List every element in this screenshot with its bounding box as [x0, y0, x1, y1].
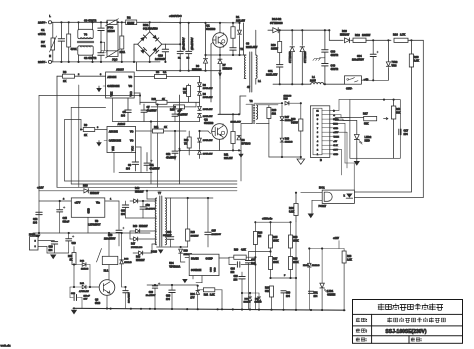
svg-text:1N4148: 1N4148 — [124, 261, 132, 264]
wire opto outputs right — [354, 191, 411, 193]
diode D27 1N4148 — [280, 117, 284, 121]
wire emitter to T1 — [218, 73, 222, 78]
svg-text:STTH6003: STTH6003 — [289, 51, 292, 63]
resistor R24 1M — [254, 222, 256, 231]
svg-text:100uF/25V: 100uF/25V — [129, 292, 131, 303]
wire T1 to Q2 collector — [240, 95, 246, 97]
ground aux symbol — [37, 233, 39, 235]
svg-text:R8: R8 — [63, 70, 67, 74]
wire opto cathode to ground — [312, 199, 322, 201]
cap C7 47uF/50V — [143, 104, 145, 110]
ground T7 DC28 — [156, 244, 158, 247]
svg-text:Q2: Q2 — [204, 118, 208, 122]
svg-text:10V/0.5W: 10V/0.5W — [203, 140, 214, 142]
wire sense bottom rail — [268, 124, 270, 157]
snubber resistor R12b 22/1.2W — [232, 114, 234, 131]
LED2 RED — [356, 121, 358, 135]
svg-text:450uF/400V: 450uF/400V — [184, 37, 186, 50]
wire T7 mid rail — [126, 217, 157, 219]
svg-text:C25: C25 — [212, 231, 217, 233]
title row name — [356, 318, 360, 322]
svg-text:17V: 17V — [190, 297, 195, 299]
svg-text:1N4148: 1N4148 — [285, 141, 293, 144]
panel sub-circuit box — [350, 100, 400, 159]
resistor R2 5/10W — [126, 20, 137, 25]
svg-text:C22: C22 — [146, 205, 151, 207]
resistor R14g — [151, 106, 174, 108]
cap C32 100uF/25V — [125, 287, 127, 290]
cap C29 10uF/50V — [154, 284, 156, 287]
snubber diode D5 — [239, 23, 241, 30]
svg-text:GREEN: GREEN — [327, 294, 336, 296]
svg-text:C30: C30 — [286, 293, 291, 295]
svg-text:HER107: HER107 — [90, 192, 100, 195]
IGBT Q1 G30N60 — [213, 33, 228, 48]
svg-text:4.7V/0.5W: 4.7V/0.5W — [79, 290, 89, 293]
title company name — [378, 304, 385, 311]
svg-text:C27: C27 — [251, 260, 256, 262]
wire +300V bus — [160, 21, 240, 24]
svg-text:FAN1: FAN1 — [29, 233, 36, 236]
wire R13 to base — [73, 265, 75, 288]
svg-text:VO: VO — [130, 140, 134, 143]
transformer T2 core dashed — [254, 105, 255, 124]
cap C24 104/400V — [207, 198, 209, 232]
svg-text:LM7815CT: LM7815CT — [88, 223, 101, 226]
svg-text:A316J: A316J — [116, 68, 124, 72]
wire DC+ to E1 — [165, 43, 180, 45]
svg-text:T1: T1 — [240, 47, 244, 51]
diode D31 1N4148 — [258, 293, 260, 296]
svg-text:C10: C10 — [158, 54, 163, 58]
svg-text:VIPER20A: VIPER20A — [169, 266, 180, 269]
resistor R10 — [140, 101, 156, 103]
cap C20 104 — [125, 201, 127, 205]
svg-text:7V00: 7V00 — [392, 61, 398, 64]
svg-text:+300vdc: +300vdc — [262, 217, 273, 221]
svg-text:47uF/50V: 47uF/50V — [178, 113, 189, 116]
relay contact arm — [97, 249, 102, 263]
inductor L1 output — [273, 83, 311, 85]
svg-text:1K: 1K — [70, 259, 73, 261]
svg-text:2.7K: 2.7K — [400, 34, 405, 37]
title block frame — [353, 300, 463, 344]
svg-text:SOURCE: SOURCE — [191, 269, 202, 272]
svg-text:22/1.2W: 22/1.2W — [224, 158, 233, 160]
svg-text:HER107: HER107 — [135, 191, 144, 193]
driver2 VCC wire — [136, 146, 141, 148]
svg-text:680uF: 680uF — [63, 221, 70, 223]
svg-text:1N4148: 1N4148 — [81, 268, 89, 271]
svg-text:R24: R24 — [258, 232, 263, 235]
choke T4 winding bottom — [78, 46, 93, 55]
wire +12V rail — [39, 190, 83, 192]
wire T2 secondary bottom — [255, 119, 257, 123]
svg-text:R12: R12 — [355, 33, 360, 37]
svg-text:STTH6003: STTH6003 — [304, 51, 307, 63]
svg-text:DC28: DC28 — [151, 252, 158, 254]
snubber R19 10/2W — [279, 30, 281, 41]
diode D61 4.7V zener — [74, 286, 82, 288]
svg-text:ZD10: ZD10 — [303, 265, 309, 267]
cap C28 104 — [171, 285, 173, 290]
transformer T7 — [155, 198, 156, 245]
svg-text:G: G — [333, 115, 335, 117]
wire Q2 emitter — [219, 139, 221, 150]
svg-text:TXEE: TXEE — [333, 137, 339, 139]
diode D18 HER107 — [139, 251, 143, 255]
svg-text:KV/G: KV/G — [333, 119, 339, 121]
wire pin G — [333, 114, 341, 116]
wire sense R26 bottom — [295, 221, 297, 310]
svg-text:47uF/50V: 47uF/50V — [166, 156, 177, 159]
svg-text:COMP: COMP — [206, 258, 214, 261]
svg-text:1K: 1K — [162, 99, 165, 101]
resistor R13b 1K — [73, 247, 75, 253]
wire T2 secondary top — [256, 104, 269, 106]
resistor R9 1K — [80, 128, 82, 130]
svg-text:VDD: VDD — [215, 267, 217, 272]
svg-text:HER107: HER107 — [139, 226, 148, 228]
Y-cap C40 472/Y2 — [322, 64, 328, 66]
svg-text:10V/0.5W: 10V/0.5W — [203, 109, 214, 111]
svg-text:R2: R2 — [127, 16, 131, 20]
ground bus symbol left — [73, 308, 75, 309]
node Q1 emitter — [219, 54, 221, 56]
svg-text:MZ06: MZ06 — [108, 29, 116, 33]
ground fan — [47, 252, 69, 254]
svg-text:VEE: VEE — [112, 146, 115, 151]
long vertical left of Q2 — [179, 95, 181, 184]
svg-text:1N4148: 1N4148 — [284, 94, 292, 97]
optocoupler ISO1 PC817 — [322, 190, 354, 203]
svg-text:MUR860: MUR860 — [192, 69, 202, 72]
transformer T1 core — [249, 52, 251, 92]
svg-text:1M: 1M — [258, 236, 261, 238]
svg-text:R20: R20 — [414, 55, 419, 59]
resistor R17 100K — [269, 257, 273, 270]
svg-text:JQC: JQC — [112, 58, 117, 62]
svg-text:R14: R14 — [170, 109, 175, 112]
svg-text:HER807: HER807 — [340, 34, 350, 37]
driver1 output network R4 — [134, 76, 154, 78]
regulator U04 VIPER20A — [189, 254, 219, 275]
transformer T1 secondary — [256, 55, 257, 78]
terminal N 220V bottom — [48, 60, 51, 63]
svg-text:2.1K: 2.1K — [414, 60, 419, 63]
svg-text:R21: R21 — [204, 295, 209, 297]
wire Q1 emitter to snubber — [206, 54, 247, 56]
svg-text:4.3K: 4.3K — [241, 249, 246, 252]
svg-text:C26: C26 — [234, 276, 239, 278]
capacitor C10 1uF/630V — [164, 44, 166, 49]
svg-text:104/400V: 104/400V — [212, 233, 222, 236]
cap C27 1nF — [249, 251, 271, 253]
svg-text:VO: VO — [130, 131, 134, 134]
control module B1 SIP — [310, 106, 329, 158]
cap C19 100uF — [68, 233, 70, 238]
svg-text:ANODE: ANODE — [109, 131, 118, 134]
svg-text:D28: D28 — [285, 139, 290, 141]
cap C22 47uF/50V — [142, 201, 144, 207]
svg-text:D12: D12 — [135, 187, 140, 190]
svg-text:D20: D20 — [342, 29, 347, 33]
svg-text:+4B: +4B — [364, 78, 369, 82]
cap C30 104 — [283, 289, 285, 290]
potentiometer R17 50K — [364, 116, 377, 120]
svg-text:+12V: +12V — [37, 186, 44, 190]
cap C12 47uF/50V — [174, 131, 176, 151]
svg-text:R28: R28 — [347, 256, 352, 258]
svg-text:104: 104 — [121, 114, 126, 117]
wire D30 D31 top — [242, 292, 259, 294]
cap C33 220uF/16V — [69, 287, 71, 298]
svg-text:7K: 7K — [183, 91, 186, 94]
cap C8 47uF/50V — [174, 107, 176, 114]
svg-text:DRAIN: DRAIN — [191, 258, 199, 261]
svg-text:102U: 102U — [310, 79, 316, 82]
svg-text:R1: R1 — [236, 15, 240, 19]
snubber cap C6 222/1.6KV — [230, 48, 236, 50]
gate driver U1 A316J — [106, 72, 135, 98]
zener ZD5 7V00 — [387, 40, 389, 61]
svg-text:web.dz: web.dz — [0, 344, 11, 348]
svg-text:CLK: CLK — [333, 145, 338, 147]
svg-text:LED1: LED1 — [327, 290, 334, 293]
svg-text:OSC: OSC — [211, 267, 213, 272]
svg-text:1N4148: 1N4148 — [255, 301, 263, 304]
svg-text:VO: VO — [129, 76, 133, 79]
resistor R6 7K vertical — [188, 84, 190, 85]
relay contact RK1 bypass — [106, 22, 108, 50]
svg-text:100K: 100K — [273, 262, 279, 264]
svg-text:W08: W08 — [392, 65, 398, 68]
svg-text:SQL50A/510: SQL50A/510 — [143, 27, 158, 30]
svg-text:VCC: VCC — [131, 146, 134, 151]
resistor R12 100/2W — [353, 38, 366, 42]
relay coil RL1 — [102, 256, 118, 264]
svg-text:D18: D18 — [136, 257, 141, 259]
svg-text:100/2W: 100/2W — [362, 34, 371, 37]
svg-text:222/1KV: 222/1KV — [163, 235, 172, 237]
svg-text:10K/2W: 10K/2W — [191, 235, 200, 237]
bus capacitor E1 450uF/400V — [179, 23, 181, 51]
potentiometer R18 50K vertical — [393, 100, 395, 106]
svg-text:R18: R18 — [396, 108, 401, 111]
resistor R28 2.2K — [342, 251, 346, 263]
svg-text:STTH6003: STTH6003 — [270, 21, 283, 25]
svg-text:uF/X2: uF/X2 — [38, 32, 46, 36]
svg-text:50K: 50K — [265, 291, 270, 293]
svg-text:Vin: Vin — [96, 201, 100, 204]
diode D30 1N4148 — [249, 293, 251, 296]
driver2 output network R11 — [136, 130, 152, 132]
svg-text:R10: R10 — [152, 98, 157, 101]
wire bridge AC left — [134, 43, 138, 45]
svg-text:R16: R16 — [393, 33, 398, 37]
wire viper comp out — [219, 257, 229, 259]
svg-text:1N4148: 1N4148 — [312, 264, 320, 267]
IGBT Q2 G30N60 — [212, 124, 228, 140]
svg-text:R17: R17 — [363, 112, 368, 116]
svg-text:D16: D16 — [133, 226, 138, 228]
wire divider taps — [271, 277, 297, 279]
wire pin REG right — [333, 122, 345, 124]
wire T7 right top — [165, 197, 170, 199]
svg-text:R15: R15 — [273, 237, 278, 239]
svg-text:R13: R13 — [68, 256, 73, 258]
svg-text:34/3W: 34/3W — [291, 121, 298, 124]
freewheel diode D22 STTH6003 — [301, 30, 303, 45]
chassis ground output — [320, 57, 325, 59]
wire T7 left top — [147, 198, 157, 200]
resistor R30 34/3W — [300, 103, 302, 119]
svg-text:100K: 100K — [273, 240, 279, 242]
svg-text:REG: REG — [333, 123, 338, 125]
long vertical mid-left A — [150, 122, 152, 185]
svg-text:U04: U04 — [169, 262, 174, 265]
ground control outline — [297, 159, 305, 164]
resistor R29 102 — [268, 105, 270, 108]
svg-text:D13: D13 — [83, 185, 88, 188]
wire routing v continuation — [80, 120, 82, 130]
svg-text:220V~: 220V~ — [38, 60, 47, 64]
cap C13 104 — [38, 201, 40, 212]
transformer T2 secondary — [256, 105, 257, 120]
cap C15 680uF — [59, 201, 61, 209]
svg-text:R11: R11 — [224, 154, 229, 157]
ground relay — [106, 307, 108, 309]
LED1 GREEN — [321, 249, 323, 284]
svg-text:G30N60: G30N60 — [204, 122, 214, 125]
resistor R26 5.1K — [295, 193, 297, 203]
resistor R13g 7K vertical — [188, 131, 190, 137]
svg-text:9013: 9013 — [95, 303, 101, 305]
svg-text:C2 472/Y2: C2 472/Y2 — [84, 56, 97, 60]
svg-text:450uF/400V: 450uF/400V — [192, 37, 194, 50]
wire DC- bus — [137, 70, 220, 72]
ground driver2 — [104, 140, 107, 142]
svg-text:C24: C24 — [231, 268, 236, 271]
cap C16 220uF/50V — [116, 230, 122, 232]
terminal L 220V top — [48, 21, 51, 24]
svg-text:7K: 7K — [184, 142, 187, 145]
capacitor C17 104 — [399, 130, 401, 132]
diode D20 HER807 — [345, 38, 350, 43]
svg-text:1N4148: 1N4148 — [244, 301, 252, 304]
svg-text:1K: 1K — [63, 79, 66, 83]
svg-text:MUR860: MUR860 — [223, 68, 233, 71]
svg-text:N: N — [49, 54, 51, 58]
zener pair lower D4 D5 10V/0.5W — [199, 131, 201, 138]
wire driver1 lower rail — [113, 121, 151, 123]
wire bottom mains rail — [52, 61, 160, 63]
diode D17 BYV27-200 — [134, 237, 138, 241]
svg-text:R17: R17 — [273, 259, 278, 261]
wire driver1 out to Q1 gate — [200, 101, 212, 103]
svg-text:2.2K: 2.2K — [347, 259, 352, 261]
cap C31 104 — [310, 289, 312, 291]
wire driver1 routing vertical — [56, 76, 58, 187]
diode D28 1N4148 — [280, 138, 284, 142]
diode D16 HER107 — [136, 229, 140, 233]
regulator U2 LM7812CT — [71, 198, 105, 217]
svg-text:C41: C41 — [268, 70, 273, 73]
U2 ground pin — [87, 217, 89, 233]
varistor RV — [52, 22, 54, 38]
resistor R16 2.7K — [394, 38, 408, 42]
wire pin OUT down — [333, 149, 342, 151]
svg-text:PC817: PC817 — [319, 205, 327, 208]
svg-text:472/Y2: 472/Y2 — [331, 54, 339, 57]
wire pin D up — [333, 109, 339, 111]
wire driver2 out to Q2 gate — [186, 130, 189, 132]
svg-text:CATHODE: CATHODE — [107, 85, 120, 88]
svg-text:472/Y2: 472/Y2 — [331, 68, 339, 71]
svg-text:10V/0.5W: 10V/0.5W — [203, 88, 214, 90]
resistor R29 50K — [271, 284, 273, 287]
svg-text:GND: GND — [333, 154, 338, 156]
wire T7 left verticals — [129, 201, 131, 231]
wire +12V feed to drivers — [39, 95, 140, 97]
wire panel feed 2 — [335, 120, 357, 122]
svg-text:D17: D17 — [131, 244, 136, 246]
svg-text:R30: R30 — [291, 118, 296, 121]
svg-text:Q1: Q1 — [206, 24, 210, 28]
svg-text:47uF/50V: 47uF/50V — [150, 167, 161, 170]
svg-text:+17V: +17V — [75, 201, 81, 204]
wire top mains rail — [52, 21, 107, 23]
wire sense top — [257, 221, 291, 223]
ground opto — [308, 214, 314, 219]
svg-text:C29: C29 — [149, 292, 154, 294]
svg-text:LED2: LED2 — [365, 135, 372, 139]
svg-text:47uF/50V: 47uF/50V — [147, 109, 158, 112]
resistor R5 bleeder — [121, 22, 123, 36]
svg-text:BR1: BR1 — [143, 23, 149, 27]
driver1 VCC wire — [134, 92, 140, 94]
zener pair upper D2 D3 10V/0.5W — [199, 80, 201, 82]
Y-caps C3 C2 — [100, 22, 102, 28]
wire zener branch — [89, 265, 91, 288]
svg-text:22/1.2W: 22/1.2W — [236, 19, 246, 22]
svg-text:10V/0.5W: 10V/0.5W — [203, 97, 214, 99]
svg-text:220V~: 220V~ — [38, 21, 47, 25]
svg-text:102: 102 — [272, 112, 277, 115]
wire panel sense vertical — [353, 163, 355, 191]
svg-text:OUT-: OUT- — [346, 87, 352, 91]
wire +12V to R28 — [309, 248, 344, 250]
svg-text:CATHODE: CATHODE — [109, 140, 122, 143]
wire driver2 lower rail — [119, 172, 152, 174]
svg-text:C11: C11 — [150, 164, 155, 167]
freewheel diode D21 STTH6003 — [291, 30, 293, 45]
wire D6 top riser — [205, 23, 207, 55]
wire viper drain — [181, 261, 190, 263]
wire T7 HV rail — [165, 197, 188, 199]
svg-text:B: B — [320, 159, 322, 162]
wire pin KV — [333, 118, 343, 120]
bus capacitor E2 450uF/400V — [188, 23, 190, 51]
svg-text:47uF/50V: 47uF/50V — [146, 207, 156, 210]
wire control top — [254, 102, 282, 104]
svg-text:C23: C23 — [167, 232, 172, 234]
cap C18 104 — [54, 240, 56, 243]
title row model — [356, 328, 360, 332]
gate driver U3 A316J — [107, 127, 136, 153]
capacitor C1 — [60, 22, 62, 38]
diode D19 HER107 — [180, 247, 182, 248]
